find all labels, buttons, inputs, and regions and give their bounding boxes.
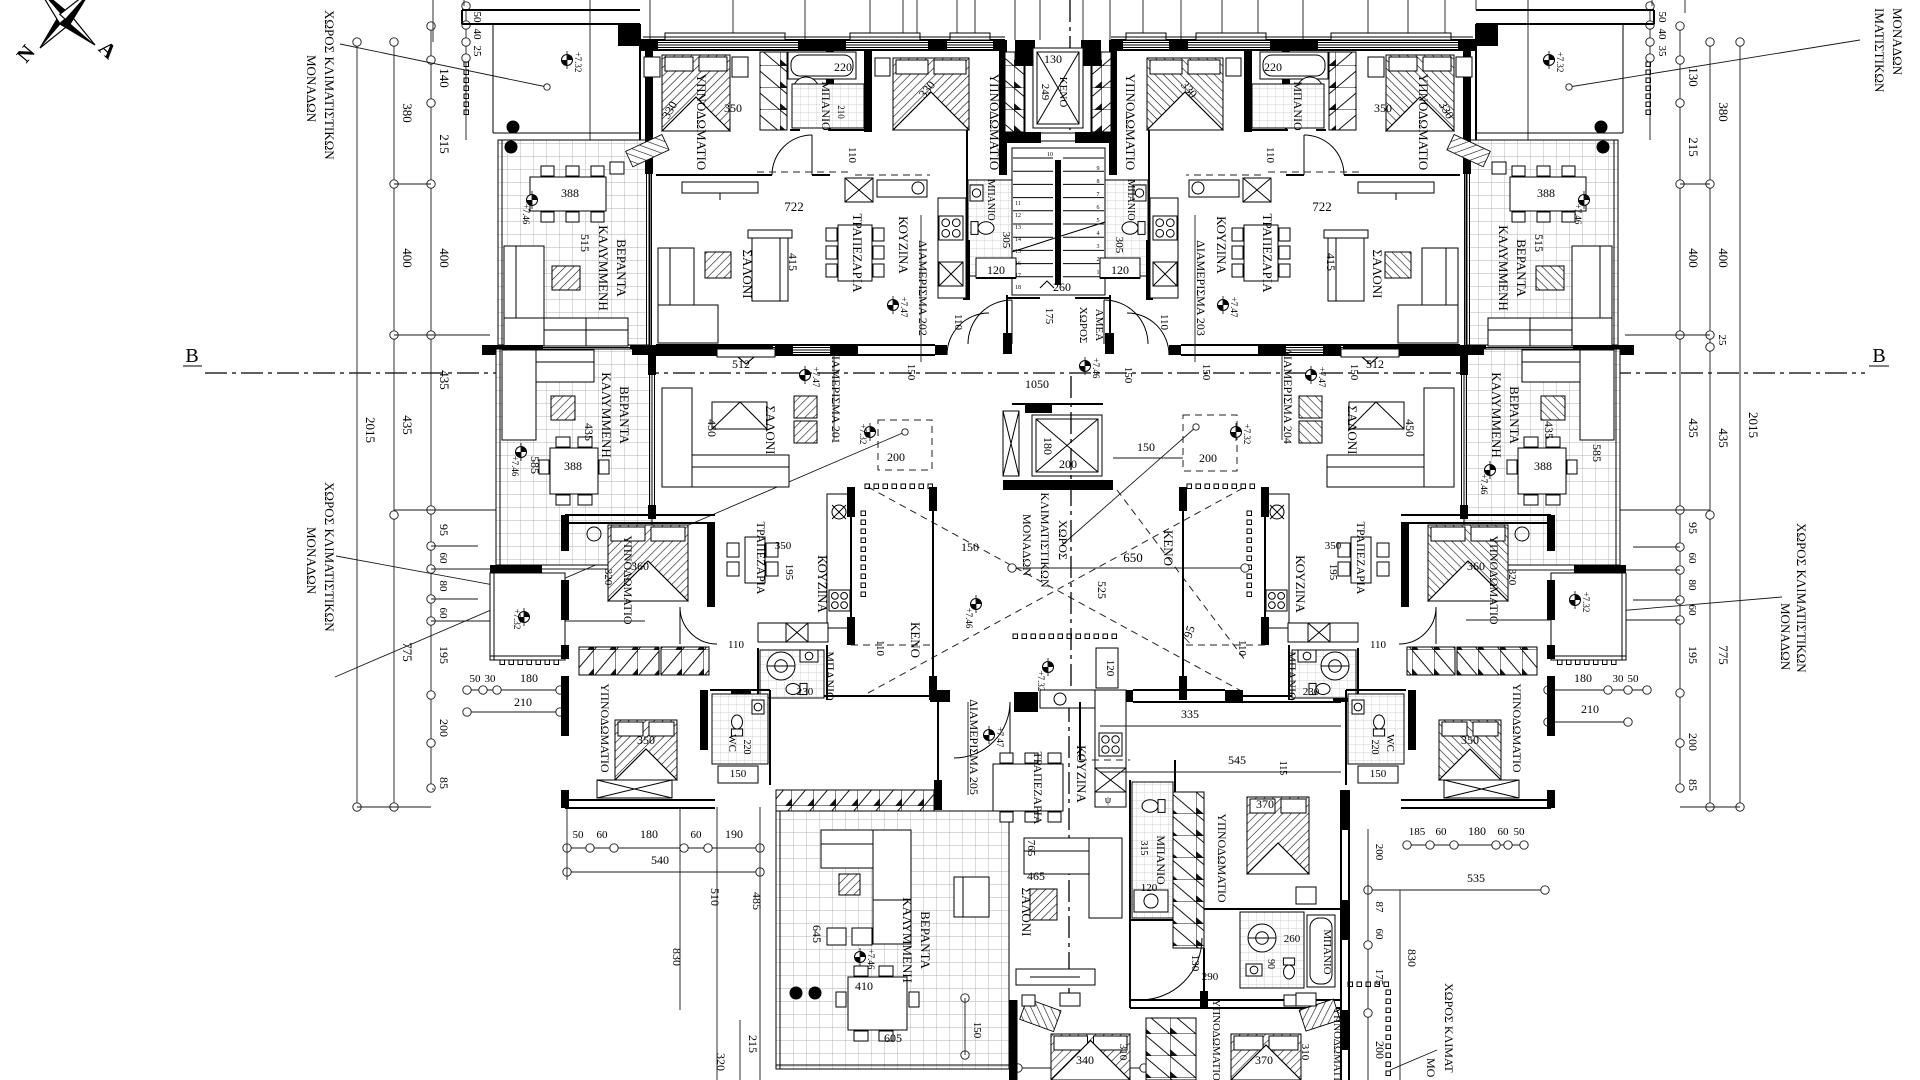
svg-text:110: 110 [1236, 640, 1248, 657]
svg-text:18: 18 [1015, 285, 1021, 291]
svg-text:215: 215 [437, 134, 452, 154]
svg-text:ΜΠΑΝΙΟ: ΜΠΑΝΙΟ [1291, 81, 1305, 131]
benchmark AC top-left [562, 51, 573, 69]
svg-text:535: 535 [1467, 871, 1485, 885]
kitchen wall to lightwell [850, 487, 852, 645]
svg-text:645: 645 [810, 925, 824, 943]
svg-text:+7.32: +7.32 [512, 609, 522, 630]
top center vertical dash-dot axis [1069, 0, 1071, 130]
svg-text:360: 360 [1467, 559, 1485, 573]
svg-text:95: 95 [437, 524, 451, 536]
svg-text:ΧΩΡΟΣ ΚΛΙΜΑΤΙΣΤΙΚΩΝ: ΧΩΡΟΣ ΚΛΙΜΑΤΙΣΤΙΚΩΝ [322, 482, 337, 632]
svg-text:388: 388 [1534, 459, 1552, 473]
svg-text:380: 380 [1716, 102, 1731, 122]
svg-text:60: 60 [691, 829, 703, 841]
lower elevator shaft [1025, 404, 1052, 413]
svg-text:8: 8 [1097, 179, 1100, 185]
svg-text:+7.46: +7.46 [866, 949, 876, 970]
svg-text:310: 310 [1299, 1044, 1311, 1061]
svg-text:180: 180 [520, 671, 538, 685]
svg-text:150: 150 [1200, 364, 1212, 381]
svg-text:722: 722 [1312, 199, 1332, 214]
svg-text:185: 185 [1409, 826, 1426, 838]
svg-text:120: 120 [1111, 263, 1129, 277]
svg-text:350: 350 [1374, 101, 1392, 115]
svg-text:60: 60 [437, 553, 449, 565]
svg-text:ΜΟΝΑΔΩΝ: ΜΟΝΑΔΩΝ [304, 527, 319, 595]
svg-text:ΜΠΑΝΙΟ: ΜΠΑΝΙΟ [819, 81, 833, 131]
salon 202 tv cabinet [682, 182, 758, 193]
svg-text:435: 435 [582, 423, 596, 441]
wc 201 [712, 694, 768, 764]
wing centerline [1068, 700, 1070, 1000]
svg-text:ΚΟΥΖΙΝΑ: ΚΟΥΖΙΝΑ [1074, 745, 1089, 803]
svg-text:220: 220 [741, 740, 752, 755]
svg-text:450: 450 [1403, 419, 1417, 437]
svg-text:+7.32: +7.32 [1242, 424, 1252, 445]
dining 202 table [838, 225, 872, 281]
svg-text:722: 722 [784, 199, 804, 214]
svg-text:+7.32: +7.32 [1581, 592, 1591, 613]
svg-text:140: 140 [437, 68, 452, 88]
svg-text:585: 585 [1590, 444, 1604, 462]
salon 202 L-sofa [658, 248, 694, 343]
svg-text:60: 60 [597, 829, 609, 841]
wing veranda tiled floor [776, 811, 1009, 1069]
svg-text:130: 130 [1044, 52, 1062, 66]
apartment top facade wall [640, 39, 1005, 41]
bathroom 202 toilet [800, 98, 811, 119]
bottom-left extension verticals [432, 788, 434, 790]
wing veranda benchmark [855, 948, 866, 966]
svg-text:585: 585 [528, 456, 542, 474]
svg-text:305: 305 [1113, 237, 1125, 254]
svg-text:350: 350 [1461, 733, 1479, 747]
veranda window wall [646, 174, 648, 345]
svg-text:545: 545 [1228, 753, 1246, 767]
top extension lines [432, 0, 434, 42]
svg-text:415: 415 [1324, 253, 1338, 271]
AC balcony mid-left [490, 573, 565, 660]
apartment 201 west wall [648, 345, 656, 375]
svg-text:60: 60 [1686, 553, 1698, 565]
svg-text:ΥΠΝΟΔΩΜΑΤΙΟ: ΥΠΝΟΔΩΜΑΤΙΟ [1215, 813, 1229, 902]
wing kitchen counters [1095, 690, 1126, 807]
svg-text:120: 120 [1104, 660, 1116, 677]
kitchen 202 [966, 175, 968, 300]
corridor 201 walls [851, 644, 933, 646]
lightwell dotted strips [865, 484, 870, 489]
bathroom 202 sink [850, 92, 864, 110]
left chain extension ticks [394, 509, 505, 511]
corridor door arc [947, 313, 989, 355]
bottom-right wing dimension rows [1407, 844, 1524, 846]
kitchen 201 counters [827, 494, 851, 628]
AC dashed box left of shaft [878, 420, 932, 470]
svg-text:110: 110 [952, 314, 964, 331]
leader middle-left to AC box [335, 432, 905, 677]
svg-text:400: 400 [1686, 248, 1701, 268]
svg-text:210: 210 [836, 105, 846, 119]
lightwell dashed cross [868, 487, 1245, 693]
section line B-B [205, 372, 1865, 374]
left dimension chain inner [430, 26, 432, 788]
svg-text:150: 150 [905, 364, 917, 381]
wing dining table 205 [993, 764, 1063, 811]
svg-text:+7.32: +7.32 [858, 424, 868, 445]
svg-text:ΜΟΝΑΔΩΝ: ΜΟΝΑΔΩΝ [1890, 8, 1905, 76]
svg-text:485: 485 [750, 892, 764, 910]
svg-text:525: 525 [1095, 581, 1109, 599]
bedroom 360 bed [608, 525, 688, 601]
svg-text:ΚΕΝΟ: ΚΕΝΟ [908, 622, 923, 658]
black dots top-left [507, 121, 520, 134]
svg-text:310: 310 [1117, 1044, 1129, 1061]
svg-text:515: 515 [578, 234, 592, 252]
bedroom 360 walls [565, 514, 715, 516]
veranda dining table [530, 177, 606, 211]
svg-text:465: 465 [1027, 869, 1045, 883]
svg-text:30: 30 [1613, 673, 1625, 685]
svg-text:830: 830 [1405, 949, 1419, 967]
svg-text:80: 80 [437, 581, 449, 593]
veranda top-left tiled floor [498, 140, 650, 345]
svg-text:435: 435 [1542, 421, 1556, 439]
svg-text:ΣΑΛΟΝΙ: ΣΑΛΟΝΙ [1345, 406, 1360, 455]
veranda L-sofa [504, 246, 544, 346]
svg-text:120: 120 [1141, 882, 1158, 894]
svg-text:ΥΠΝΟΔΩΜΑΤΙΟ: ΥΠΝΟΔΩΜΑΤΙΟ [1510, 683, 1524, 772]
svg-text:+7.47: +7.47 [1317, 367, 1327, 388]
svg-text:180: 180 [1041, 437, 1055, 455]
svg-text:25: 25 [471, 46, 483, 58]
svg-text:115: 115 [1277, 761, 1288, 776]
svg-text:60: 60 [1373, 929, 1385, 941]
svg-text:ΚΕΝΟ: ΚΕΝΟ [1161, 530, 1176, 566]
right horizontal dims under AC box [1548, 689, 1647, 691]
svg-text:40: 40 [471, 29, 483, 41]
svg-text:512: 512 [1366, 357, 1384, 371]
svg-text:+7.46: +7.46 [1091, 358, 1101, 379]
svg-text:+7.46: +7.46 [521, 204, 531, 225]
leader top-right [1569, 40, 1860, 87]
svg-text:14: 14 [1015, 237, 1021, 243]
core bathroom 305 [968, 180, 1012, 276]
svg-text:335: 335 [1181, 707, 1199, 721]
left dimension chain 2015 [356, 42, 358, 807]
svg-text:ΣΑΛΟΝΙ: ΣΑΛΟΝΙ [1370, 250, 1385, 299]
svg-text:215: 215 [1686, 137, 1701, 157]
svg-text:WC: WC [1384, 734, 1396, 752]
svg-text:650: 650 [1123, 550, 1143, 565]
svg-text:50: 50 [470, 673, 482, 685]
svg-text:60: 60 [1436, 826, 1448, 838]
AC balcony top-left walls [462, 9, 640, 11]
wall below veranda [490, 565, 542, 574]
svg-text:220: 220 [1369, 740, 1380, 755]
svg-text:2015: 2015 [363, 417, 378, 443]
svg-text:765: 765 [1025, 840, 1037, 857]
svg-text:260: 260 [1284, 933, 1301, 945]
svg-text:350: 350 [1325, 540, 1342, 552]
svg-text:ΣΑΛΟΝΙ: ΣΑΛΟΝΙ [740, 250, 755, 299]
svg-text:80: 80 [1686, 580, 1698, 592]
svg-text:ΜΟΝΑΔΩΝ: ΜΟΝΑΔΩΝ [1020, 514, 1034, 576]
svg-text:+7.46: +7.46 [1573, 204, 1583, 225]
svg-text:ΒΕΡΑΝΤΑ: ΒΕΡΑΝΤΑ [614, 239, 629, 297]
left top small dims 50 40 25 [465, 6, 467, 140]
svg-text:435: 435 [1716, 428, 1731, 448]
lightwell small rect 120 [1096, 648, 1118, 688]
svg-text:60: 60 [1498, 826, 1510, 838]
svg-text:190: 190 [725, 827, 743, 841]
svg-text:510: 510 [708, 888, 722, 906]
svg-text:ΒΕΡΑΝΤΑ: ΒΕΡΑΝΤΑ [617, 386, 632, 444]
svg-text:350: 350 [775, 540, 792, 552]
svg-text:12: 12 [1015, 213, 1021, 219]
right dimension chain inner [1679, 26, 1681, 788]
wing salon walls [937, 702, 939, 790]
bedroom 350 bed [615, 720, 677, 780]
svg-text:200: 200 [1059, 457, 1077, 471]
window sill 512 [717, 349, 775, 357]
svg-text:200: 200 [1199, 451, 1217, 465]
svg-text:415: 415 [786, 253, 800, 271]
svg-text:ΥΠΝΟΔΩΜΑΤΙΟ: ΥΠΝΟΔΩΜΑΤΙΟ [987, 74, 1002, 170]
svg-text:ΧΩΡΟΣ ΚΛΙΜΑΤΙΣΤΙΚΩΝ: ΧΩΡΟΣ ΚΛΙΜΑΤΙΣΤΙΚΩΝ [1794, 523, 1809, 673]
bedroom west wall [645, 50, 653, 140]
svg-text:5: 5 [1097, 218, 1100, 224]
left AC dotted strip [464, 62, 469, 67]
svg-text:ΧΩΡΟΣ: ΧΩΡΟΣ [1077, 307, 1089, 344]
wing bedroom 1 bed [1247, 797, 1309, 874]
svg-text:350: 350 [637, 733, 655, 747]
svg-text:775: 775 [1716, 645, 1731, 665]
svg-text:ΤΡΑΠΕΖΑΡΙΑ: ΤΡΑΠΕΖΑΡΙΑ [850, 214, 865, 294]
svg-text:150: 150 [1370, 768, 1387, 780]
svg-text:ΚΑΛΥΜΜΕΝΗ: ΚΑΛΥΜΜΕΝΗ [596, 225, 611, 310]
svg-text:ΜΟΝΑΔΩΝ: ΜΟΝΑΔΩΝ [1778, 603, 1793, 671]
wing bottom bedroom desks [1020, 999, 1061, 1032]
svg-text:ΑΜΕΑ: ΑΜΕΑ [1093, 309, 1105, 341]
wing veranda saw strip [776, 790, 934, 811]
svg-text:195: 195 [437, 646, 451, 664]
svg-text:210: 210 [514, 695, 532, 709]
stairwell [1012, 148, 1105, 295]
svg-text:ΒΕΡΑΝΤΑ: ΒΕΡΑΝΤΑ [918, 911, 933, 969]
wing bottom bedrooms [1146, 1018, 1196, 1080]
apartment 201 top wall [656, 344, 858, 346]
svg-text:ΚΕΝΟ: ΚΕΝΟ [1057, 77, 1069, 108]
svg-text:200: 200 [1373, 1041, 1387, 1059]
svg-text:130: 130 [1189, 955, 1201, 972]
svg-text:220: 220 [1264, 60, 1282, 74]
wing veranda poufs [827, 928, 846, 945]
svg-text:ΧΩΡΟΣ ΚΛΙΜΑΤΙΣΤΙΚΩΝ: ΧΩΡΟΣ ΚΛΙΜΑΤΙΣΤΙΚΩΝ [322, 10, 337, 160]
svg-text:180: 180 [1468, 824, 1486, 838]
svg-text:315: 315 [1138, 841, 1149, 856]
svg-text:+7.46: +7.46 [1479, 474, 1489, 495]
svg-text:ΚΑΛΥΜΜΕΝΗ: ΚΑΛΥΜΜΕΝΗ [1489, 372, 1504, 457]
svg-text:110: 110 [1370, 639, 1387, 651]
svg-text:95: 95 [1686, 522, 1700, 534]
svg-text:2015: 2015 [1746, 412, 1761, 438]
svg-text:+7.32: +7.32 [1555, 52, 1565, 73]
svg-text:340: 340 [1076, 1053, 1094, 1067]
svg-text:200: 200 [437, 719, 451, 737]
bedroom 202 bed [662, 55, 730, 131]
svg-text:ΚΑΛΥΜΜΕΝΗ: ΚΑΛΥΜΜΕΝΗ [599, 372, 614, 457]
svg-text:ΔΙΑΜΕΡΙΣΜΑ 204: ΔΙΑΜΕΡΙΣΜΑ 204 [1281, 348, 1295, 444]
right chain extension ticks [1610, 509, 1710, 511]
svg-text:150: 150 [1348, 364, 1360, 381]
svg-text:ΥΠΝΟΔΩΜΑΤΙΟ: ΥΠΝΟΔΩΜΑΤΙΟ [1416, 74, 1431, 170]
wing salon sofa [1024, 838, 1122, 874]
leader top-left [340, 44, 547, 87]
lightwell dim 650 [1012, 567, 1245, 569]
svg-text:7: 7 [1097, 192, 1100, 198]
left dimension chain outer [393, 42, 395, 807]
svg-text:230: 230 [1303, 686, 1320, 698]
bottom-left dimension rows [567, 847, 760, 849]
svg-text:515: 515 [1532, 234, 1546, 252]
svg-text:ΜΠΑΝΙΟ: ΜΠΑΝΙΟ [1285, 651, 1299, 701]
right dimension chain 2015 [1739, 42, 1741, 807]
svg-text:290: 290 [1202, 971, 1219, 983]
svg-text:180: 180 [640, 827, 658, 841]
wing top wall [731, 690, 751, 702]
svg-text:50: 50 [1628, 673, 1640, 685]
svg-text:ΙΜΑΤΙΣΤΙΚΩΝ: ΙΜΑΤΙΣΤΙΚΩΝ [1872, 8, 1887, 93]
svg-text:150: 150 [1137, 440, 1155, 454]
svg-text:ΔΙΑΜΕΡΙΣΜΑ 201: ΔΙΑΜΕΡΙΣΜΑ 201 [829, 348, 843, 444]
bathroom 202 floor tiles [792, 84, 864, 128]
bedroom divider wall [656, 174, 772, 176]
svg-text:ΔΙΑΜΕΡΙΣΜΑ 205: ΔΙΑΜΕΡΙΣΜΑ 205 [967, 699, 981, 795]
svg-text:110: 110 [1264, 147, 1276, 164]
bathroom 201 [760, 650, 824, 698]
veranda lower-left tiled floor [496, 349, 652, 565]
salon 202 couch [752, 237, 788, 301]
svg-text:ΚΑΛΥΜΜΕΝΗ: ΚΑΛΥΜΜΕΝΗ [1496, 225, 1511, 310]
svg-text:435: 435 [400, 415, 415, 435]
svg-text:ΥΠΝΟΔΩΜΑΤΙΟ: ΥΠΝΟΔΩΜΑΤΙΟ [598, 683, 612, 772]
svg-text:ΧΩΡΟΣ: ΧΩΡΟΣ [1056, 520, 1070, 560]
svg-text:ΜΠΑΝΙΟ: ΜΠΑΝΙΟ [823, 651, 837, 701]
svg-text:50: 50 [1514, 826, 1526, 838]
svg-text:380: 380 [400, 103, 415, 123]
facade window sills [665, 33, 785, 40]
benchmark AC top-right [1544, 51, 1555, 69]
bathroom 202 walls [826, 50, 834, 96]
svg-text:1: 1 [1097, 270, 1100, 276]
svg-text:195: 195 [1686, 646, 1700, 664]
svg-text:1050: 1050 [1025, 377, 1049, 391]
dining 201 table [745, 537, 765, 583]
svg-text:90: 90 [1265, 959, 1276, 969]
svg-text:ΚΟΥΖΙΝΑ: ΚΟΥΖΙΝΑ [1293, 555, 1308, 613]
svg-text:+7.47: +7.47 [899, 297, 909, 318]
bedroom 350 walls [561, 676, 569, 736]
wing bath2 [1240, 912, 1304, 988]
svg-text:220: 220 [834, 60, 852, 74]
svg-text:ΤΡΑΠΕΖΑΡΙΑ: ΤΡΑΠΕΖΑΡΙΑ [754, 522, 768, 595]
svg-text:9: 9 [1097, 166, 1100, 172]
svg-text:50: 50 [471, 12, 483, 24]
compass north arrow [38, 0, 95, 48]
hall dashed boundary [757, 171, 850, 173]
svg-text:200: 200 [887, 450, 905, 464]
svg-text:150: 150 [961, 540, 979, 554]
svg-text:B: B [1872, 345, 1885, 367]
right AC dotted strip [1646, 62, 1651, 67]
svg-text:ΚΟΥΖΙΝΑ: ΚΟΥΖΙΝΑ [896, 216, 911, 274]
bedroom 350 closet [597, 780, 672, 798]
svg-text:ΤΡΑΠΕΖΑΡΙΑ: ΤΡΑΠΕΖΑΡΙΑ [1354, 522, 1368, 595]
svg-text:85: 85 [437, 777, 451, 789]
bedroom 202 wardrobe [760, 52, 787, 130]
svg-text:ΚΑΛΥΜΜΕΝΗ: ΚΑΛΥΜΜΕΝΗ [900, 897, 915, 982]
bedroom 360 door [680, 607, 717, 644]
svg-text:320: 320 [1506, 569, 1518, 586]
veranda lower dining table [550, 448, 598, 494]
svg-text:ΜΠΑΝΙΟ: ΜΠΑΝΙΟ [1125, 179, 1136, 220]
svg-text:200: 200 [1373, 844, 1385, 861]
svg-text:30: 30 [485, 673, 497, 685]
svg-text:ΔΙΑΜΕΡΙΣΜΑ 203: ΔΙΑΜΕΡΙΣΜΑ 203 [1194, 240, 1208, 336]
svg-text:260: 260 [1053, 280, 1071, 294]
svg-text:+7.32: +7.32 [573, 52, 583, 73]
svg-text:110: 110 [728, 639, 745, 651]
svg-text:150: 150 [1122, 367, 1134, 384]
svg-text:50: 50 [1656, 12, 1668, 24]
svg-text:130: 130 [1686, 67, 1701, 87]
svg-text:ΒΕΡΑΝΤΑ: ΒΕΡΑΝΤΑ [1507, 386, 1522, 444]
svg-text:ΜΟ: ΜΟ [1424, 1058, 1438, 1078]
svg-text:85: 85 [1686, 779, 1700, 791]
svg-text:195: 195 [783, 564, 795, 581]
svg-text:ΥΠΝΟΔΩΜΑΤΙΟ: ΥΠΝΟΔΩΜΑΤΙΟ [1331, 1007, 1343, 1080]
svg-text:320: 320 [602, 569, 614, 586]
svg-text:215: 215 [746, 1035, 760, 1053]
lightwell centerline [1070, 376, 1072, 700]
svg-text:388: 388 [1537, 186, 1555, 200]
svg-text:+7.47: +7.47 [1229, 297, 1239, 318]
wing entry door arc [954, 702, 1010, 758]
svg-text:450: 450 [705, 419, 719, 437]
wing salon tv [1016, 969, 1095, 985]
svg-text:40: 40 [1656, 29, 1668, 41]
svg-text:ΣΑΛΟΝΙ: ΣΑΛΟΝΙ [763, 406, 778, 455]
svg-text:ΜΠΑΝΙΟ: ΜΠΑΝΙΟ [1154, 835, 1168, 885]
veranda coffee table hatched [552, 266, 580, 290]
svg-text:+7.46: +7.46 [510, 456, 520, 477]
wing veranda artwork [839, 874, 860, 895]
salon 202 artwork [705, 252, 731, 278]
svg-text:150: 150 [971, 1022, 983, 1039]
svg-text:ΤΡΑΠΕΖΑΡΙΑ: ΤΡΑΠΕΖΑΡΙΑ [1031, 752, 1045, 825]
svg-text:ΥΠΝΟΔΩΜΑΤΙΟ: ΥΠΝΟΔΩΜΑΤΙΟ [1123, 74, 1138, 170]
svg-text:388: 388 [561, 186, 579, 200]
boxed 120 right [1100, 258, 1140, 278]
wing wardrobe strip [1173, 792, 1204, 948]
svg-text:ΔΙΑΜΕΡΙΣΜΑ 202: ΔΙΑΜΕΡΙΣΜΑ 202 [916, 240, 930, 336]
svg-text:435: 435 [1686, 418, 1701, 438]
bathroom 202 shower seat [793, 77, 819, 103]
svg-text:+7.47: +7.47 [995, 727, 1005, 748]
corridor door arcs at stairs [968, 300, 1012, 344]
svg-text:+7.46: +7.46 [964, 608, 974, 629]
